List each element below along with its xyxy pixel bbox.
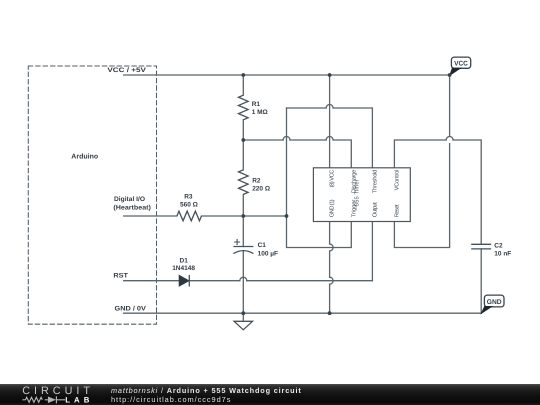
svg-text:10 nF: 10 nF	[494, 250, 511, 257]
svg-text:Digital I/O: Digital I/O	[114, 196, 145, 203]
svg-text:GND: GND	[487, 299, 502, 306]
svg-text:555 Timer: 555 Timer	[354, 179, 361, 206]
svg-text:R1: R1	[252, 101, 261, 108]
svg-text:RST: RST	[113, 273, 128, 280]
svg-text:(8) VCC: (8) VCC	[329, 170, 336, 188]
svg-text:560 Ω: 560 Ω	[180, 202, 198, 209]
svg-text:100 µF: 100 µF	[258, 250, 278, 257]
svg-text:1 MΩ: 1 MΩ	[252, 109, 268, 116]
svg-text:1N4148: 1N4148	[172, 265, 195, 272]
svg-text:Output: Output	[372, 202, 379, 217]
svg-text:(Heartbeat): (Heartbeat)	[113, 204, 150, 211]
svg-text:C2: C2	[494, 243, 503, 250]
svg-text:Threshold: Threshold	[372, 170, 379, 194]
svg-text:VControl: VControl	[394, 170, 401, 191]
svg-text:GND (1): GND (1)	[329, 199, 336, 217]
svg-text:220 Ω: 220 Ω	[252, 186, 270, 193]
svg-text:C1: C1	[258, 242, 267, 249]
svg-text:Arduino: Arduino	[71, 152, 98, 160]
svg-text:GND / 0V: GND / 0V	[115, 305, 147, 312]
svg-text:VCC / +5V: VCC / +5V	[107, 67, 146, 74]
svg-text:D1: D1	[180, 258, 189, 265]
svg-text:R2: R2	[252, 177, 261, 184]
svg-text:LAB: LAB	[65, 395, 93, 404]
svg-text:Reset: Reset	[395, 204, 401, 217]
svg-text:VCC: VCC	[454, 61, 468, 68]
svg-text:R3: R3	[184, 193, 193, 200]
